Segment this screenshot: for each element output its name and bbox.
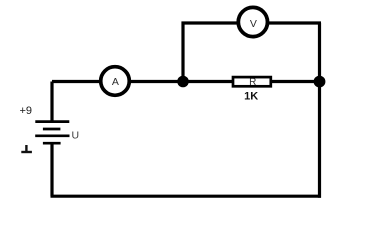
- node left junction: [177, 76, 189, 88]
- svg-text:1K: 1K: [244, 90, 258, 102]
- wire bottom horizontal: [51, 195, 322, 198]
- svg-text:V: V: [250, 18, 257, 30]
- svg-text:+9: +9: [19, 105, 32, 117]
- wire battery bottom to bottom-left corner: [50, 143, 53, 196]
- wire left node up to top branch: [181, 22, 184, 82]
- svg-text:A: A: [112, 76, 119, 88]
- battery U: [35, 122, 69, 144]
- wire left vertical (corner to battery top plate): [50, 82, 53, 122]
- wire middle horizontal (battery top to right node): [52, 80, 320, 83]
- wire right vertical (top corner to bottom corner): [318, 23, 321, 198]
- wire top horizontal (voltmeter branch): [182, 21, 322, 24]
- svg-text:U: U: [72, 130, 80, 142]
- voltmeter V: [238, 7, 267, 36]
- ground / minus mark: [21, 145, 32, 152]
- ammeter A: [101, 67, 130, 96]
- resistor R: [233, 77, 271, 86]
- node right junction: [314, 76, 326, 88]
